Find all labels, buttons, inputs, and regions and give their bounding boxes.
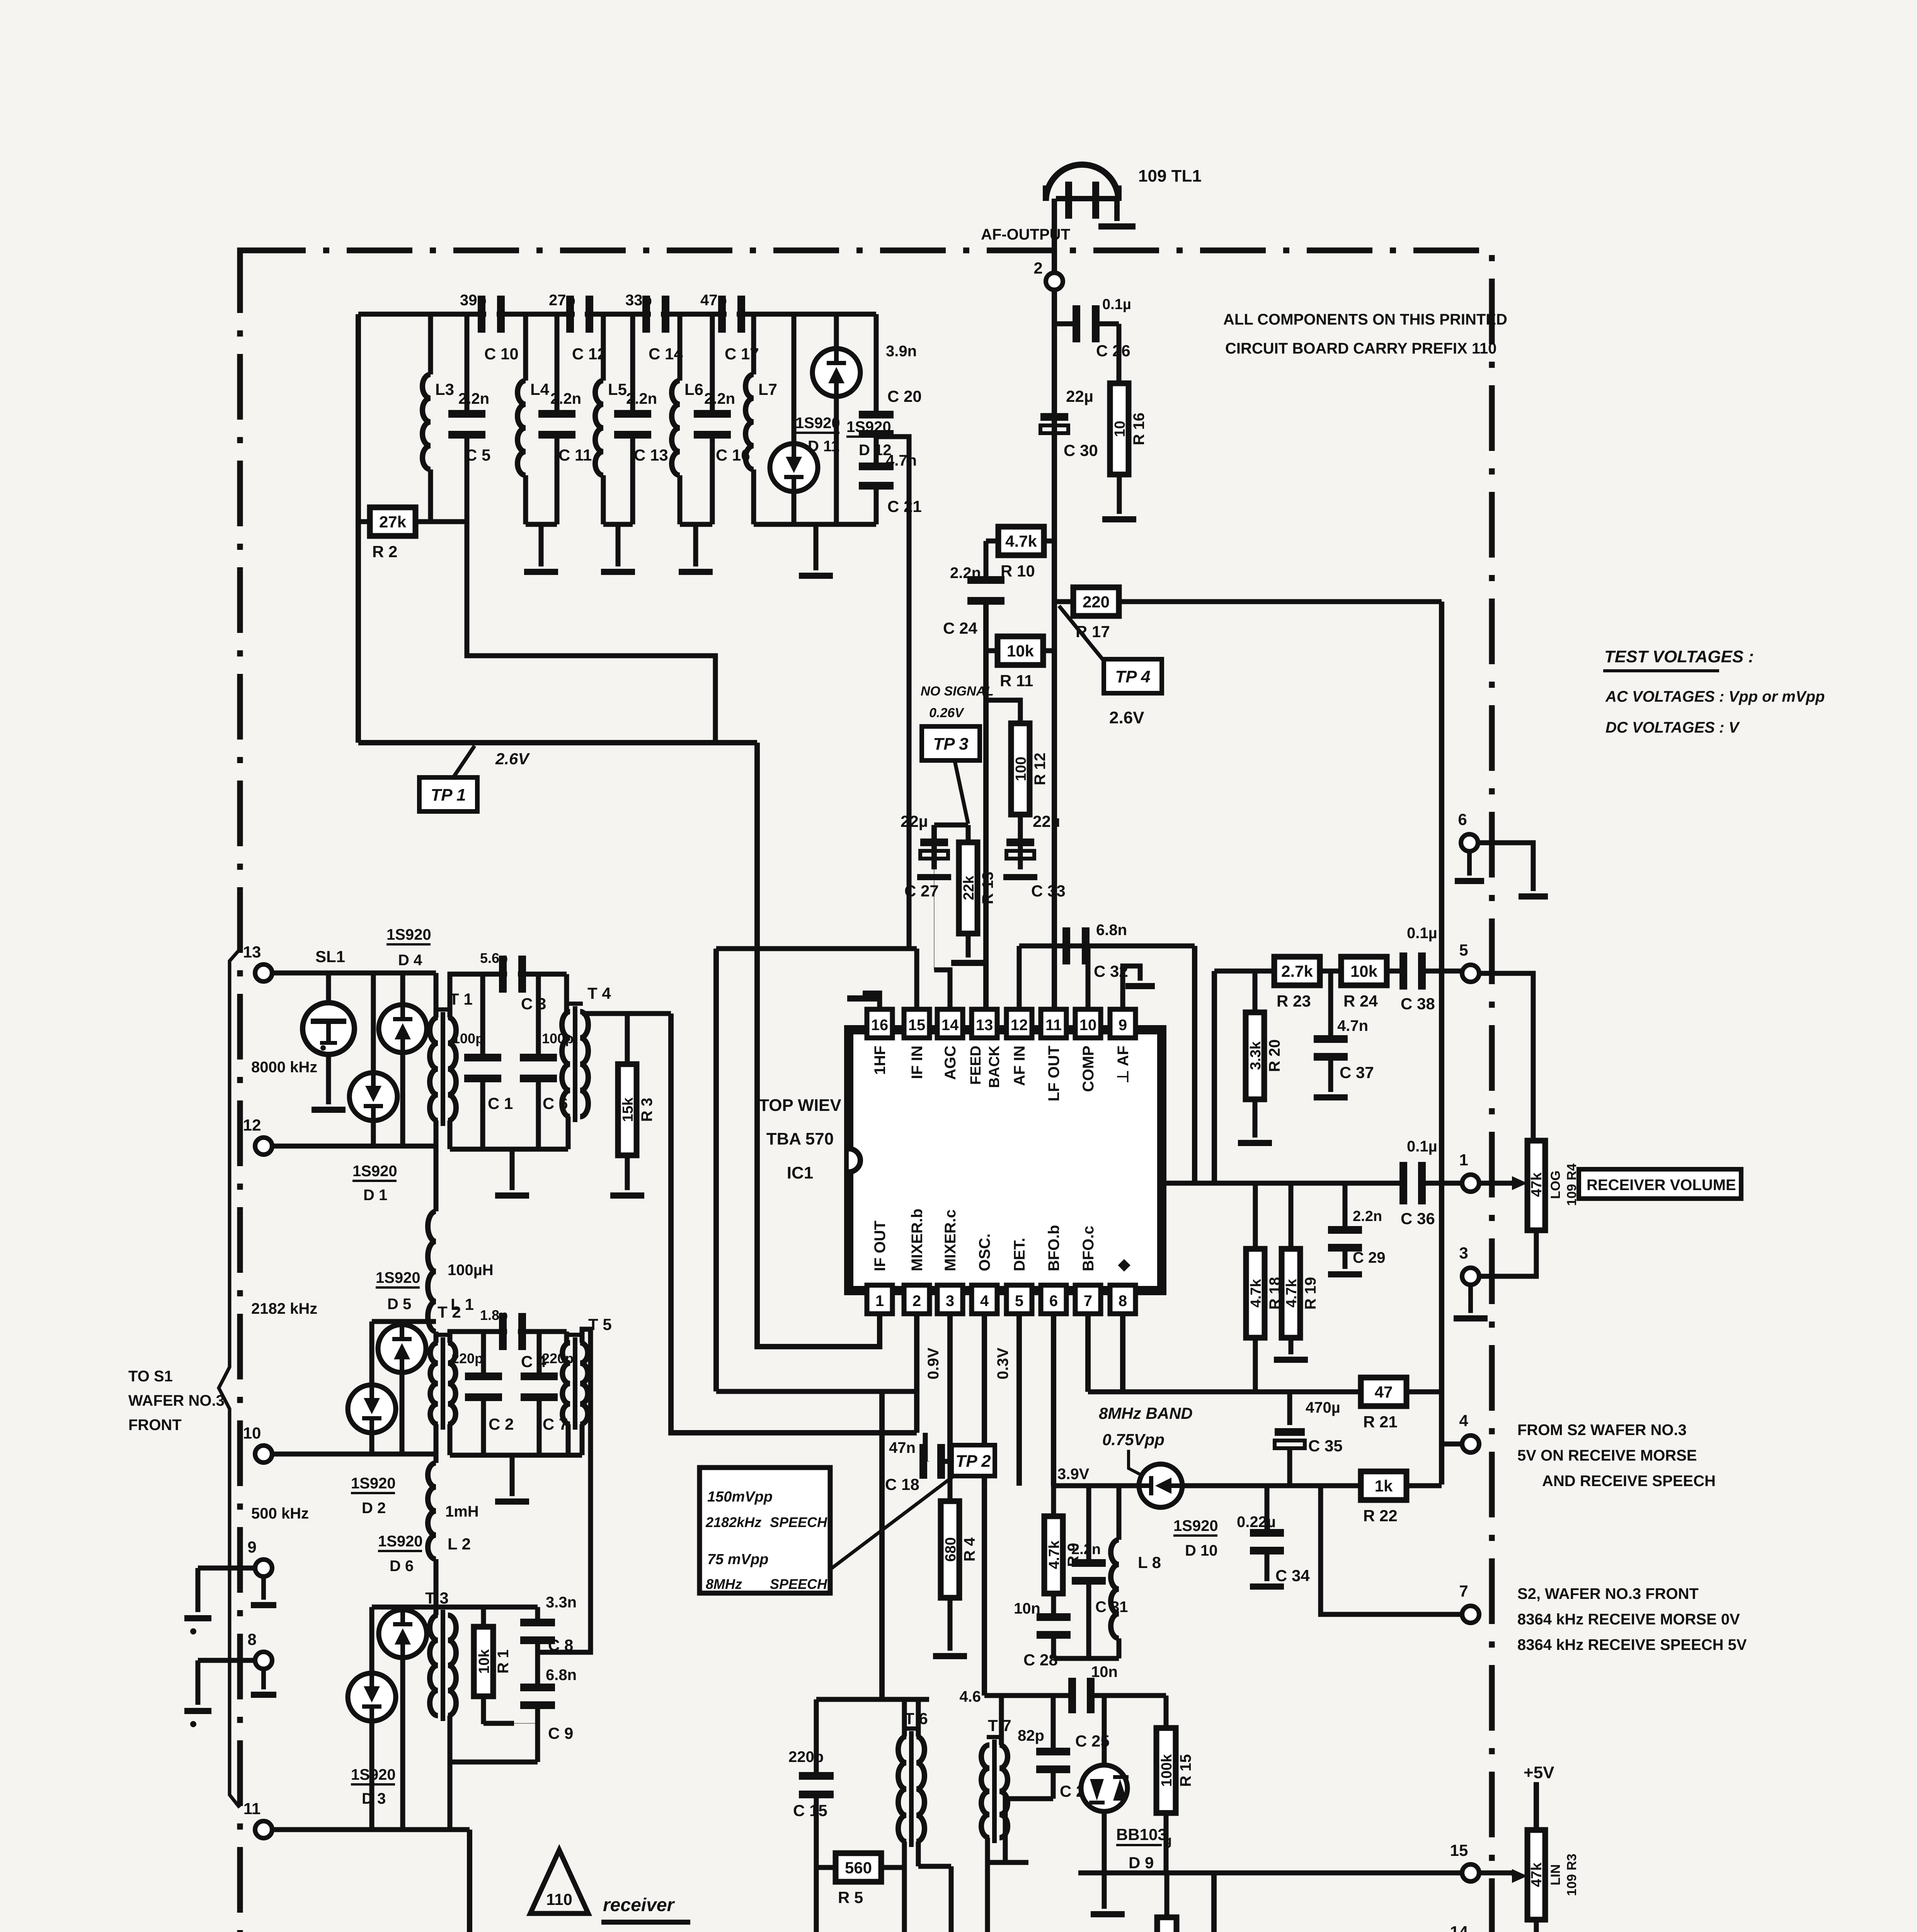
svg-text:3: 3 — [946, 1293, 954, 1310]
svg-text:C 13: C 13 — [634, 446, 668, 464]
svg-text:2: 2 — [913, 1293, 921, 1310]
svg-text:100p: 100p — [452, 1031, 484, 1046]
wire T4 output vertical — [671, 1014, 917, 1433]
ground for SL1 — [312, 1107, 346, 1113]
svg-text:MIXER.b: MIXER.b — [909, 1209, 926, 1271]
ground for C29 — [1328, 1271, 1362, 1277]
svg-text:3.9V: 3.9V — [1057, 1466, 1090, 1483]
svg-text:22µ: 22µ — [901, 812, 928, 830]
inductor L2 1mH — [434, 1454, 439, 1463]
svg-text:C 34: C 34 — [1275, 1566, 1310, 1585]
svg-text:0.1µ: 0.1µ — [1407, 925, 1437, 942]
svg-text:4.7n: 4.7n — [1337, 1017, 1368, 1034]
svg-text:2.2n: 2.2n — [950, 565, 981, 582]
wire T5 secondary to C8 — [580, 1424, 585, 1455]
svg-text:RECEIVER VOLUME: RECEIVER VOLUME — [1587, 1177, 1736, 1194]
svg-text:BB103: BB103 — [1116, 1825, 1167, 1844]
svg-text:1HF: 1HF — [872, 1046, 889, 1075]
svg-text:T 1: T 1 — [449, 990, 473, 1008]
svg-text:AC VOLTAGES : Vpp or mVpp: AC VOLTAGES : Vpp or mVpp — [1605, 688, 1825, 705]
wire T6 top rail — [816, 1697, 929, 1702]
capacitor C1 100p — [480, 974, 485, 1055]
wire T4 secondary to R3 line — [582, 1011, 671, 1016]
transformer T5 — [564, 1332, 569, 1343]
svg-text:IC1: IC1 — [787, 1163, 813, 1182]
wire 500kHz diode rail — [372, 1605, 538, 1610]
svg-text:5.6p: 5.6p — [480, 950, 508, 966]
svg-text:COMP: COMP — [1080, 1046, 1097, 1092]
resistor R18 4.7k — [1246, 1249, 1265, 1338]
svg-text:220: 220 — [1083, 593, 1110, 611]
svg-text:6: 6 — [1458, 810, 1467, 828]
capacitor C7 220p — [537, 1332, 542, 1374]
svg-text:16: 16 — [871, 1017, 889, 1034]
svg-text:DC VOLTAGES : V: DC VOLTAGES : V — [1605, 719, 1740, 736]
capacitor C21 4.7n — [874, 437, 879, 463]
diode D2 1S920 — [369, 1321, 375, 1385]
svg-text:1k: 1k — [1375, 1477, 1393, 1495]
svg-text:8: 8 — [1119, 1293, 1127, 1310]
svg-text:D 9: D 9 — [1129, 1854, 1154, 1872]
inductor L4 — [523, 314, 528, 381]
transformer T1 — [430, 1017, 438, 1121]
svg-text:R 3: R 3 — [638, 1098, 655, 1122]
svg-text:100µH: 100µH — [448, 1262, 494, 1279]
svg-text:109 R3: 109 R3 — [1565, 1854, 1579, 1896]
svg-text:1: 1 — [1459, 1151, 1468, 1169]
svg-text:6.8n: 6.8n — [546, 1667, 577, 1684]
svg-text:C 3: C 3 — [521, 995, 546, 1013]
wire pin6 grounds — [1467, 852, 1472, 876]
svg-text:13: 13 — [976, 1017, 993, 1034]
ground for C37 — [1314, 1094, 1348, 1100]
svg-text:C 2: C 2 — [489, 1415, 514, 1433]
wire pin9 side ground — [198, 1566, 255, 1571]
svg-text:FROM S2 WAFER NO.3: FROM S2 WAFER NO.3 — [1517, 1422, 1687, 1439]
capacitor C30 22u — [1040, 413, 1068, 421]
diode D3 1S920 — [369, 1607, 375, 1673]
wire T7 bottom rail — [985, 1838, 990, 1862]
capacitor C8 3.3n — [535, 1607, 540, 1621]
wire C9 bottom to T3 secondary — [450, 1760, 538, 1765]
wire pin9 ground bracket — [1123, 966, 1140, 1009]
svg-text:LF OUT: LF OUT — [1045, 1046, 1062, 1101]
wire L7/D11/D12 bottom bus with ground — [754, 522, 876, 527]
svg-text:12: 12 — [1011, 1017, 1028, 1034]
ground for R20 — [1238, 1140, 1272, 1146]
svg-text:CIRCUIT BOARD CARRY PREFIX 110: CIRCUIT BOARD CARRY PREFIX 110 — [1225, 340, 1496, 357]
svg-text:R 4: R 4 — [961, 1537, 978, 1561]
wire supply bus — [1088, 1389, 1360, 1395]
svg-text:C 37: C 37 — [1340, 1063, 1374, 1082]
svg-text:110: 110 — [546, 1890, 572, 1908]
wire filter top rail — [358, 312, 486, 317]
svg-text:2.2n: 2.2n — [458, 390, 489, 407]
capacitor C26 0.1u — [1054, 321, 1075, 327]
svg-text:D 1: D 1 — [363, 1187, 387, 1204]
testpoint TP2 — [952, 1445, 995, 1476]
svg-text:2.2n: 2.2n — [1353, 1208, 1382, 1225]
svg-text:R 23: R 23 — [1277, 992, 1311, 1010]
svg-text:4.7k: 4.7k — [1248, 1279, 1264, 1308]
svg-text:47: 47 — [1375, 1383, 1393, 1401]
svg-text:0.26V: 0.26V — [929, 706, 965, 720]
IC pin 4 OSC. — [972, 1285, 997, 1314]
svg-text:470µ: 470µ — [1306, 1399, 1340, 1416]
svg-text:10k: 10k — [476, 1649, 492, 1673]
svg-text:C 28: C 28 — [1023, 1651, 1058, 1669]
headphone 109 TL1 — [1046, 165, 1119, 201]
svg-text:T 3: T 3 — [425, 1589, 449, 1607]
svg-text:C 11: C 11 — [558, 446, 592, 464]
svg-text:100: 100 — [1013, 757, 1029, 781]
capacitor C2 220p — [481, 1332, 486, 1374]
wire R17 to right bus — [1119, 599, 1442, 604]
svg-text:109 TL1: 109 TL1 — [1138, 167, 1202, 185]
svg-text:C 21: C 21 — [887, 497, 922, 515]
capacitor C10 39p — [478, 296, 485, 333]
wire R1 bottom to C9 — [484, 1716, 538, 1723]
IC pin 13 FEED BACK — [972, 1009, 997, 1038]
svg-text:C 35: C 35 — [1308, 1437, 1343, 1455]
wire filter left vertical — [356, 314, 361, 743]
IC pin 15 IF IN — [904, 1009, 930, 1038]
svg-text:1S920: 1S920 — [352, 1163, 397, 1180]
wire pin5 column to detector net — [1016, 1314, 1022, 1486]
svg-text:FRONT: FRONT — [128, 1417, 182, 1434]
wire pin1 to pot wiper arrow — [1479, 1181, 1512, 1186]
svg-text:R 15: R 15 — [1177, 1754, 1194, 1787]
wire T1/T4 secondary bottom bus with ground — [448, 1121, 453, 1149]
wire T7 bottom to mixer bus — [985, 1862, 990, 1932]
resistor R9 4.7k — [1051, 1486, 1056, 1516]
svg-text:4.7k: 4.7k — [1284, 1279, 1300, 1308]
capacitor C32 6.8n — [1062, 927, 1070, 964]
svg-text:C 38: C 38 — [1401, 995, 1435, 1013]
svg-text:IF IN: IF IN — [909, 1046, 926, 1079]
svg-text:4.7n: 4.7n — [886, 452, 917, 469]
capacitor C28 10n — [1037, 1613, 1071, 1621]
svg-text:R 16: R 16 — [1130, 413, 1147, 446]
wire T6 right winding lead — [918, 1864, 951, 1869]
inductor L7 — [751, 314, 756, 374]
svg-text:560: 560 — [845, 1859, 872, 1877]
svg-text:BFO.c: BFO.c — [1080, 1226, 1097, 1271]
svg-text:L6: L6 — [684, 380, 703, 398]
IC pin 9 &#8869; AF — [1110, 1009, 1136, 1038]
svg-text:L3: L3 — [435, 380, 454, 398]
wire C32 net — [1019, 944, 1195, 949]
IC pin 14 AGC — [937, 1009, 963, 1038]
IC pin 2 MIXER.b — [904, 1285, 930, 1314]
svg-text:0.1µ: 0.1µ — [1407, 1138, 1437, 1155]
svg-text:7: 7 — [1084, 1293, 1092, 1310]
resistor R16 10 — [1110, 383, 1129, 474]
ground above IC pin 16 — [863, 993, 880, 1009]
transformer T4 — [564, 974, 569, 1012]
svg-text:2.7k: 2.7k — [1281, 962, 1313, 980]
svg-text:2.6V: 2.6V — [495, 750, 530, 768]
wire C23 bottom to T7 — [1005, 1799, 1053, 1838]
svg-text:9: 9 — [1119, 1017, 1127, 1034]
svg-text:FEED: FEED — [968, 1046, 984, 1085]
svg-text:7: 7 — [1459, 1582, 1468, 1600]
svg-text:C 33: C 33 — [1031, 882, 1066, 900]
wire C24 to pin13 column — [983, 598, 989, 1010]
svg-text:1S920: 1S920 — [351, 1766, 396, 1783]
svg-text:5V ON RECEIVE MORSE: 5V ON RECEIVE MORSE — [1517, 1447, 1697, 1464]
wire volume bus — [1162, 1181, 1403, 1186]
wire R19 column — [1289, 1183, 1294, 1249]
ground for R13 — [951, 960, 985, 966]
svg-text:SPEECH: SPEECH — [770, 1576, 827, 1592]
varactor diode D9 BB103 — [1102, 1696, 1107, 1766]
svg-text:2: 2 — [1033, 259, 1042, 277]
capacitor C25 10n — [1068, 1678, 1076, 1713]
svg-text:8364 kHz RECEIVE MORSE 0V: 8364 kHz RECEIVE MORSE 0V — [1517, 1611, 1740, 1628]
wire pin10 to T2 — [272, 1452, 436, 1457]
svg-text:220p: 220p — [788, 1748, 824, 1765]
svg-text:5: 5 — [1459, 941, 1468, 959]
resistor R3 15k — [625, 1014, 630, 1066]
wire L6-C16 bottom with ground — [680, 522, 712, 527]
IC pin 11 LF OUT — [1041, 1009, 1066, 1038]
svg-text:BFO.b: BFO.b — [1045, 1225, 1062, 1271]
svg-text:S2, WAFER NO.3 FRONT: S2, WAFER NO.3 FRONT — [1517, 1585, 1699, 1602]
testpoint TP4 — [1104, 659, 1162, 693]
svg-text:R 11: R 11 — [1000, 672, 1033, 690]
svg-text:OSC.: OSC. — [976, 1233, 993, 1271]
svg-text:ALL COMPONENTS ON THIS PRINTED: ALL COMPONENTS ON THIS PRINTED — [1223, 311, 1507, 328]
wire T4 net vertical — [713, 949, 719, 1391]
wire pin8 column — [1120, 1314, 1125, 1392]
svg-text:R 10: R 10 — [1001, 562, 1035, 580]
capacitor C31 2.2n — [1086, 1486, 1091, 1563]
wire pin7 column — [1085, 1314, 1091, 1392]
wire pin15 arrow to pot R3 — [1479, 1871, 1514, 1876]
diode D10 1S920 — [1139, 1464, 1182, 1507]
svg-text:AF IN: AF IN — [1011, 1046, 1028, 1086]
svg-text:L4: L4 — [530, 380, 550, 398]
testpoint TP1 — [419, 777, 477, 811]
capacitor C37 4.7n — [1328, 971, 1333, 1037]
wire BFO bus — [1054, 1483, 1139, 1488]
resistor R5 560 — [816, 1865, 835, 1870]
resistor R20 3.3k — [1253, 971, 1258, 1012]
svg-text:C 10: C 10 — [484, 345, 519, 363]
svg-text:TO S1: TO S1 — [128, 1368, 173, 1385]
wire pin14 link — [934, 970, 950, 1010]
svg-text:R 2: R 2 — [372, 543, 397, 561]
svg-text:15: 15 — [908, 1017, 926, 1034]
svg-text:10: 10 — [1079, 1017, 1097, 1034]
capacitor C4 1.8p — [499, 1313, 507, 1350]
wire pin4 to bus — [1442, 1442, 1462, 1447]
wire pin15 net to C20/C21 — [716, 946, 917, 951]
capacitor C23 82p — [1051, 1696, 1056, 1750]
module pin 12 — [255, 1138, 272, 1155]
svg-text:receiver: receiver — [603, 1895, 675, 1915]
wire TP1 horizontal — [358, 740, 757, 745]
svg-text:D 4: D 4 — [398, 952, 422, 969]
svg-text:2.2n: 2.2n — [626, 390, 657, 407]
svg-text:4.7k: 4.7k — [1005, 532, 1037, 550]
svg-text:5: 5 — [1015, 1293, 1023, 1310]
capacitor C11 2.2n — [555, 314, 560, 411]
svg-text:TP 1: TP 1 — [431, 786, 466, 804]
capacitor C27 22u — [931, 825, 937, 869]
resistor R17 220 — [1054, 599, 1074, 604]
svg-text:1S920: 1S920 — [378, 1533, 423, 1550]
wire pin10 riser — [1086, 946, 1091, 1009]
svg-text:22µ: 22µ — [1033, 812, 1060, 830]
capacitor C3 5.6p — [499, 956, 507, 993]
capacitor C15 220p — [799, 1772, 834, 1780]
ground for T1 secondary — [495, 1192, 529, 1199]
svg-text:0.1µ: 0.1µ — [1102, 296, 1131, 313]
svg-text:8MHz: 8MHz — [706, 1576, 742, 1592]
label RECEIVER VOLUME — [1579, 1169, 1741, 1199]
svg-text:TBA 570: TBA 570 — [766, 1129, 834, 1148]
svg-text:47n: 47n — [889, 1439, 916, 1456]
capacitor C36 0.1u — [1399, 1162, 1407, 1204]
module pin 3 — [1462, 1268, 1479, 1285]
svg-text:8000 kHz: 8000 kHz — [251, 1059, 317, 1076]
svg-text:100k: 100k — [1159, 1754, 1175, 1787]
svg-text:C 9: C 9 — [548, 1724, 573, 1742]
capacitor C12 27p — [566, 296, 574, 333]
svg-text:1: 1 — [875, 1293, 884, 1310]
svg-text:C 5: C 5 — [465, 446, 490, 464]
ground for D9 — [1091, 1911, 1125, 1917]
wire headphone to ground — [1056, 196, 1117, 201]
svg-text:◆: ◆ — [1115, 1259, 1132, 1272]
capacitor C6 100p — [536, 974, 541, 1055]
svg-text:TP 3: TP 3 — [933, 735, 968, 753]
capacitor C16 2.2n — [710, 314, 715, 411]
capacitor C24 2.2n — [967, 576, 1004, 584]
ground for C33 — [1003, 874, 1037, 880]
svg-text:10: 10 — [1112, 421, 1128, 437]
svg-text:4: 4 — [1459, 1412, 1468, 1430]
ground for pin3 — [1468, 1285, 1473, 1313]
capacitor C14 33p — [642, 296, 650, 333]
svg-text:39p: 39p — [460, 292, 487, 309]
svg-text:C 24: C 24 — [943, 619, 977, 637]
svg-text:R 1: R 1 — [495, 1650, 512, 1673]
svg-text:1S920: 1S920 — [1173, 1517, 1218, 1534]
resistor R4 680 — [948, 1461, 953, 1502]
resistor R2 27k — [370, 507, 415, 536]
svg-text:R 24: R 24 — [1343, 992, 1378, 1010]
svg-text:SL1: SL1 — [315, 947, 345, 966]
svg-text:6.8n: 6.8n — [1096, 922, 1127, 939]
svg-text:C 1: C 1 — [488, 1094, 513, 1112]
svg-text:R 5: R 5 — [838, 1888, 863, 1906]
svg-text:1S920: 1S920 — [351, 1475, 396, 1492]
svg-text:150mVpp: 150mVpp — [707, 1489, 773, 1505]
wire pin13 to T1 — [272, 971, 436, 976]
svg-text:C 29: C 29 — [1353, 1249, 1386, 1266]
wire R2 to L3/C5 node — [415, 519, 467, 524]
potentiometer R4 47k LOG (109 R4) receiver volume — [1527, 1141, 1545, 1230]
capacitor C38 0.1u — [1399, 952, 1407, 990]
svg-text:BACK: BACK — [986, 1045, 1003, 1088]
wire R12 top elbow — [986, 700, 1020, 723]
svg-text:1S920: 1S920 — [386, 926, 431, 943]
svg-text:4: 4 — [980, 1293, 989, 1310]
svg-text:47k: 47k — [1529, 1862, 1545, 1887]
svg-text:27p: 27p — [549, 292, 575, 309]
IC pin 8 &#9670; — [1110, 1285, 1136, 1314]
svg-text:4.6: 4.6 — [959, 1688, 981, 1705]
wire AF output vertical rail — [1052, 199, 1057, 1010]
svg-text:C 26: C 26 — [1096, 342, 1130, 360]
resistor R10 4.7k — [998, 527, 1044, 555]
capacitor C33 22u — [1018, 815, 1023, 869]
capacitor C29 2.2n — [1343, 1183, 1348, 1230]
svg-text:C 8: C 8 — [548, 1636, 573, 1654]
wire receiver tuning line — [1078, 1871, 1471, 1876]
ground for C27 — [917, 874, 951, 880]
wire +5V to pot R3 — [1534, 1782, 1539, 1913]
svg-text:6: 6 — [1049, 1293, 1058, 1310]
ground for R19 — [1274, 1357, 1308, 1363]
resistor R24 10k — [1341, 957, 1387, 985]
svg-text:⊥ AF: ⊥ AF — [1115, 1046, 1132, 1083]
svg-text:L7: L7 — [758, 380, 777, 398]
resistor R23 2.7k — [1274, 957, 1320, 985]
svg-text:75 mVpp: 75 mVpp — [707, 1551, 768, 1568]
svg-text:1S920: 1S920 — [376, 1269, 421, 1286]
wire AGC bus R23/R24 — [1214, 969, 1275, 974]
svg-text:10k: 10k — [1007, 642, 1034, 660]
svg-text:C 18: C 18 — [885, 1475, 919, 1493]
svg-text:0.75Vpp: 0.75Vpp — [1102, 1430, 1165, 1449]
svg-text:11: 11 — [1045, 1017, 1062, 1034]
module pin 11 — [255, 1821, 272, 1838]
resistor R21 47 — [1361, 1378, 1406, 1406]
svg-text:LIN: LIN — [1548, 1864, 1563, 1886]
IC U1 TBA570 body — [849, 1030, 1162, 1291]
capacitor C9 6.8n — [520, 1684, 555, 1691]
module pin 5 — [1462, 965, 1479, 982]
wire T6 oscillator riser — [879, 1391, 885, 1699]
svg-text:500 kHz: 500 kHz — [251, 1505, 309, 1522]
svg-text:3.9n: 3.9n — [886, 343, 917, 360]
svg-text:10k: 10k — [1350, 962, 1378, 980]
diode D11 1S920 — [792, 314, 797, 444]
svg-text:33p: 33p — [625, 292, 652, 309]
svg-text:AGC: AGC — [942, 1046, 959, 1080]
svg-text:IF OUT: IF OUT — [872, 1221, 889, 1271]
svg-text:8MHz BAND: 8MHz BAND — [1099, 1404, 1193, 1422]
svg-text:LOG: LOG — [1548, 1170, 1563, 1199]
wire pin12 riser — [1017, 946, 1022, 1009]
svg-text:MIXER.c: MIXER.c — [942, 1209, 959, 1271]
diode D12 1S920 — [834, 314, 839, 349]
inductor L3 — [428, 314, 433, 374]
ground for headphone — [1098, 223, 1136, 230]
svg-text:D 6: D 6 — [390, 1558, 414, 1575]
diode D6 1S920 — [400, 1607, 405, 1610]
wire C20/C21 junction to pin15 column — [876, 437, 909, 949]
svg-text:9: 9 — [247, 1538, 256, 1556]
module pin 1 — [1462, 1175, 1479, 1192]
ground for C34 — [1250, 1583, 1284, 1590]
svg-text:2.6V: 2.6V — [1109, 708, 1144, 727]
capacitor C20 3.9n — [874, 314, 879, 411]
